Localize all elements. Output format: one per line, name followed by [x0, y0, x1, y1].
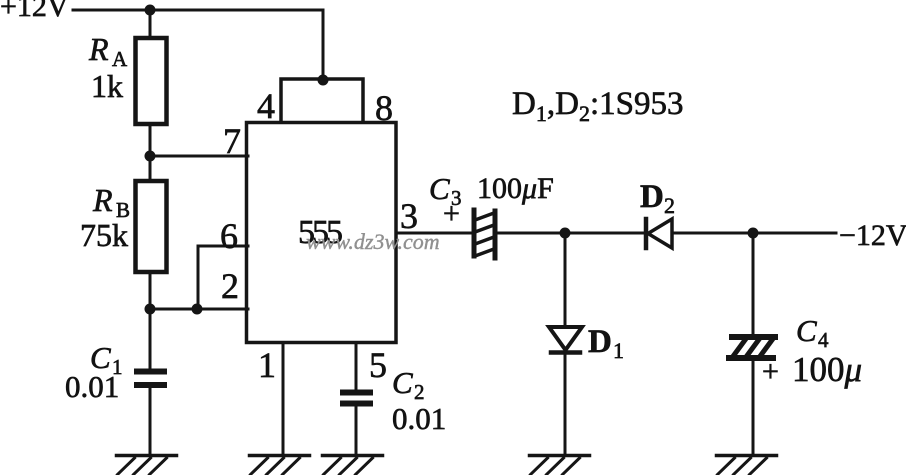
svg-text:C: C — [796, 313, 817, 348]
wire down to D1 — [564, 233, 567, 327]
svg-text:5: 5 — [369, 345, 387, 385]
pin 1 label — [258, 345, 276, 385]
svg-text:7: 7 — [223, 121, 241, 161]
wire node to RB top — [149, 156, 152, 181]
wire node to C1 — [149, 309, 152, 369]
svg-text:0.01: 0.01 — [392, 401, 446, 436]
wire pin 1 to ground — [282, 343, 285, 455]
wire C2 to ground — [355, 406, 358, 455]
label C3 — [429, 171, 462, 210]
svg-text:100μ: 100μ — [792, 350, 862, 389]
label D2 — [640, 179, 675, 218]
watermark www.dz3w.com — [306, 229, 440, 254]
label D1 — [588, 324, 624, 363]
pin 6 label — [220, 216, 238, 256]
wire rail down to pins 4/8 bracket — [322, 10, 325, 80]
label 1k value — [91, 68, 123, 104]
diode D2 — [646, 219, 672, 248]
svg-text:D1,D2:1S953: D1,D2:1S953 — [512, 86, 683, 126]
svg-text:100μF: 100μF — [477, 172, 554, 205]
label + polarity C4 — [762, 355, 779, 388]
label 0.01 value — [65, 369, 119, 404]
node +12V label — [0, 0, 69, 23]
svg-text:4: 4 — [257, 86, 275, 126]
svg-text:D: D — [640, 179, 664, 215]
resistor RA 1k — [136, 38, 167, 124]
wire pins 4-8 top bracket — [281, 79, 363, 122]
label C1 — [90, 340, 123, 379]
ground under C4 — [717, 456, 777, 475]
svg-text:−12V: −12V — [839, 219, 906, 252]
pin 8 label — [375, 88, 393, 128]
svg-text:+: + — [443, 197, 460, 230]
svg-text:2: 2 — [221, 266, 239, 306]
wire D1 to ground — [564, 352, 567, 455]
capacitor C1 0.01 plates — [134, 369, 167, 375]
svg-text:0.01: 0.01 — [65, 369, 119, 404]
svg-text:R: R — [88, 31, 109, 67]
wire C3 to D2 — [496, 232, 644, 235]
node -12V label — [839, 219, 906, 252]
capacitor C3 100uF electrolytic — [474, 210, 495, 258]
label 0.01 value — [392, 401, 446, 436]
junction dot at +12V rail / RA — [145, 5, 156, 16]
svg-text:D: D — [588, 324, 612, 360]
label 555 — [298, 214, 342, 251]
svg-text:C: C — [392, 365, 413, 400]
junction dot bracket/rail — [318, 75, 329, 86]
label 100uF value — [477, 172, 554, 205]
label + polarity C3 — [443, 197, 460, 230]
pin 7 label — [223, 121, 241, 161]
wire pin 6 horizontal — [198, 245, 248, 248]
resistor RB 75k — [136, 181, 167, 272]
svg-text:1: 1 — [258, 345, 276, 385]
svg-text:+: + — [762, 355, 779, 388]
wire pin 2 — [150, 308, 248, 311]
label 75k value — [80, 217, 128, 253]
wire pin 3 output — [396, 232, 472, 235]
junction dot C4 branch — [748, 228, 759, 239]
wire pin 6 down to pin2 node — [197, 246, 200, 309]
pin 4 label — [257, 86, 275, 126]
label C4 — [796, 313, 829, 352]
junction dot RA/RB/pin7 — [145, 151, 156, 162]
diode D1 — [549, 327, 582, 353]
svg-text:75k: 75k — [80, 217, 128, 253]
capacitor C4 100u electrolytic — [726, 334, 778, 361]
svg-text:R: R — [92, 182, 113, 218]
ground under pin 1 — [250, 456, 310, 475]
label D1,D2:1S953 note — [512, 86, 683, 126]
svg-text:4: 4 — [818, 328, 829, 352]
pin 2 label — [221, 266, 239, 306]
wire pin 7 — [150, 155, 248, 158]
ground under C1 — [117, 456, 177, 475]
junction dot RB/C1 — [145, 304, 156, 315]
label RB — [92, 182, 130, 222]
label 100u value — [792, 350, 862, 389]
wire RA bottom to node — [149, 124, 152, 156]
svg-text:8: 8 — [375, 88, 393, 128]
op-amp U1 555 IC body — [247, 123, 397, 343]
svg-text:6: 6 — [220, 216, 238, 256]
wire D2 to -12V — [672, 232, 836, 235]
svg-text:2: 2 — [664, 193, 675, 218]
wire +12V rail top — [73, 9, 323, 12]
wire rail to RA top — [149, 10, 152, 38]
wire C1 to ground — [149, 388, 152, 455]
junction dot D1 branch — [560, 228, 571, 239]
label C2 — [392, 365, 425, 404]
svg-text:1k: 1k — [91, 68, 123, 104]
wire down to C4 — [752, 233, 755, 334]
wire pin 5 to C2 — [355, 343, 358, 390]
pin 3 label — [400, 196, 418, 236]
wire RB bottom to node — [149, 272, 152, 309]
svg-text:+12V: +12V — [0, 0, 69, 23]
svg-text:1: 1 — [613, 338, 624, 363]
pin 5 label — [369, 345, 387, 385]
capacitor C2 0.01 plates — [340, 390, 373, 396]
label RA — [88, 31, 128, 71]
junction dot pins 2/6 tie — [192, 304, 203, 315]
svg-text:www.dz3w.com: www.dz3w.com — [306, 229, 440, 254]
ground under C2 — [323, 456, 383, 475]
wire C4 to ground — [752, 359, 755, 455]
ground under D1 — [530, 456, 590, 475]
